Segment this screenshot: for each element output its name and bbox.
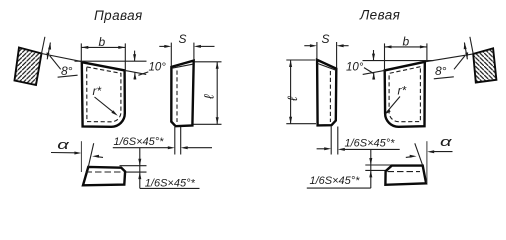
8 deg reference line to tip corner right — [425, 54, 473, 62]
dimension l — [194, 62, 222, 125]
svg-text:1/6S×45°*: 1/6S×45°* — [114, 136, 165, 148]
front view hidden back face right (dashed) — [389, 67, 420, 122]
svg-text:1/6S×45°*: 1/6S×45°* — [145, 178, 196, 190]
vertical reference line for 8 deg right — [464, 43, 469, 60]
svg-text:Левая: Левая — [359, 8, 400, 23]
front view hidden back face (dashed) — [87, 67, 121, 122]
dimension alpha right — [406, 134, 453, 183]
plan view centerline right (dashed) — [388, 171, 421, 173]
dimension S — [159, 32, 214, 67]
dimension 10 deg right — [346, 50, 434, 80]
svg-text:8°: 8° — [61, 64, 73, 78]
svg-text:ℓ: ℓ — [202, 94, 217, 99]
8 deg leader — [50, 56, 61, 70]
bottom chamfer dimension leader right — [307, 149, 392, 188]
svg-text:α: α — [440, 134, 453, 149]
front view outline (right-hand tip) — [82, 62, 125, 127]
side view hidden line (dashed) — [176, 71, 178, 123]
svg-text:S: S — [179, 32, 187, 46]
side view top facet line — [172, 64, 194, 68]
svg-text:10°: 10° — [149, 62, 167, 74]
r arrow right — [384, 97, 400, 115]
svg-text:1/6S×45°*: 1/6S×45°* — [310, 175, 361, 187]
side view top facet line right — [317, 63, 336, 70]
bottom (plan) view outline — [83, 167, 125, 185]
svg-text:r*: r* — [93, 84, 102, 98]
vertical reference line for 8 deg — [47, 43, 52, 60]
side chamfer dimension right — [317, 127, 400, 155]
8 deg underline right — [434, 77, 454, 79]
dimension alpha — [51, 137, 103, 172]
8 deg reference line to tip corner — [42, 54, 82, 62]
8 deg underline — [58, 75, 78, 77]
dimension b right — [385, 34, 427, 70]
svg-text:b: b — [403, 34, 410, 48]
bottom chamfer dimension leader — [120, 148, 200, 190]
r arrow — [95, 97, 118, 116]
svg-text:b: b — [99, 35, 106, 49]
8 deg leader right — [454, 56, 465, 70]
bottom (plan) view outline right — [385, 166, 426, 185]
dimension l right — [285, 60, 316, 124]
edge extension line above holder right — [470, 37, 473, 54]
svg-text:10°: 10° — [346, 62, 364, 74]
svg-text:S: S — [322, 32, 330, 46]
side chamfer dimension 1/6S x 45 — [113, 127, 212, 155]
holder (hatched) body right — [473, 48, 496, 82]
holder (hatched) body — [15, 48, 42, 86]
edge extension line above holder — [42, 37, 45, 54]
side view outline — [171, 61, 193, 127]
side view outline right — [317, 60, 336, 126]
side view hidden line right (dashed) — [329, 71, 331, 122]
plan view centerline (dashed) — [86, 171, 123, 173]
svg-text:r*: r* — [398, 84, 407, 98]
svg-text:α: α — [57, 137, 70, 152]
svg-text:ℓ: ℓ — [285, 96, 300, 101]
front view outline (left-hand tip) — [385, 62, 425, 127]
dimension S right — [304, 32, 348, 68]
svg-text:1/6S×45°*: 1/6S×45°* — [345, 138, 396, 150]
svg-text:Правая: Правая — [94, 8, 143, 23]
dimension 10 deg — [75, 51, 167, 80]
dimension b — [81, 35, 125, 70]
svg-text:8°: 8° — [435, 64, 447, 78]
